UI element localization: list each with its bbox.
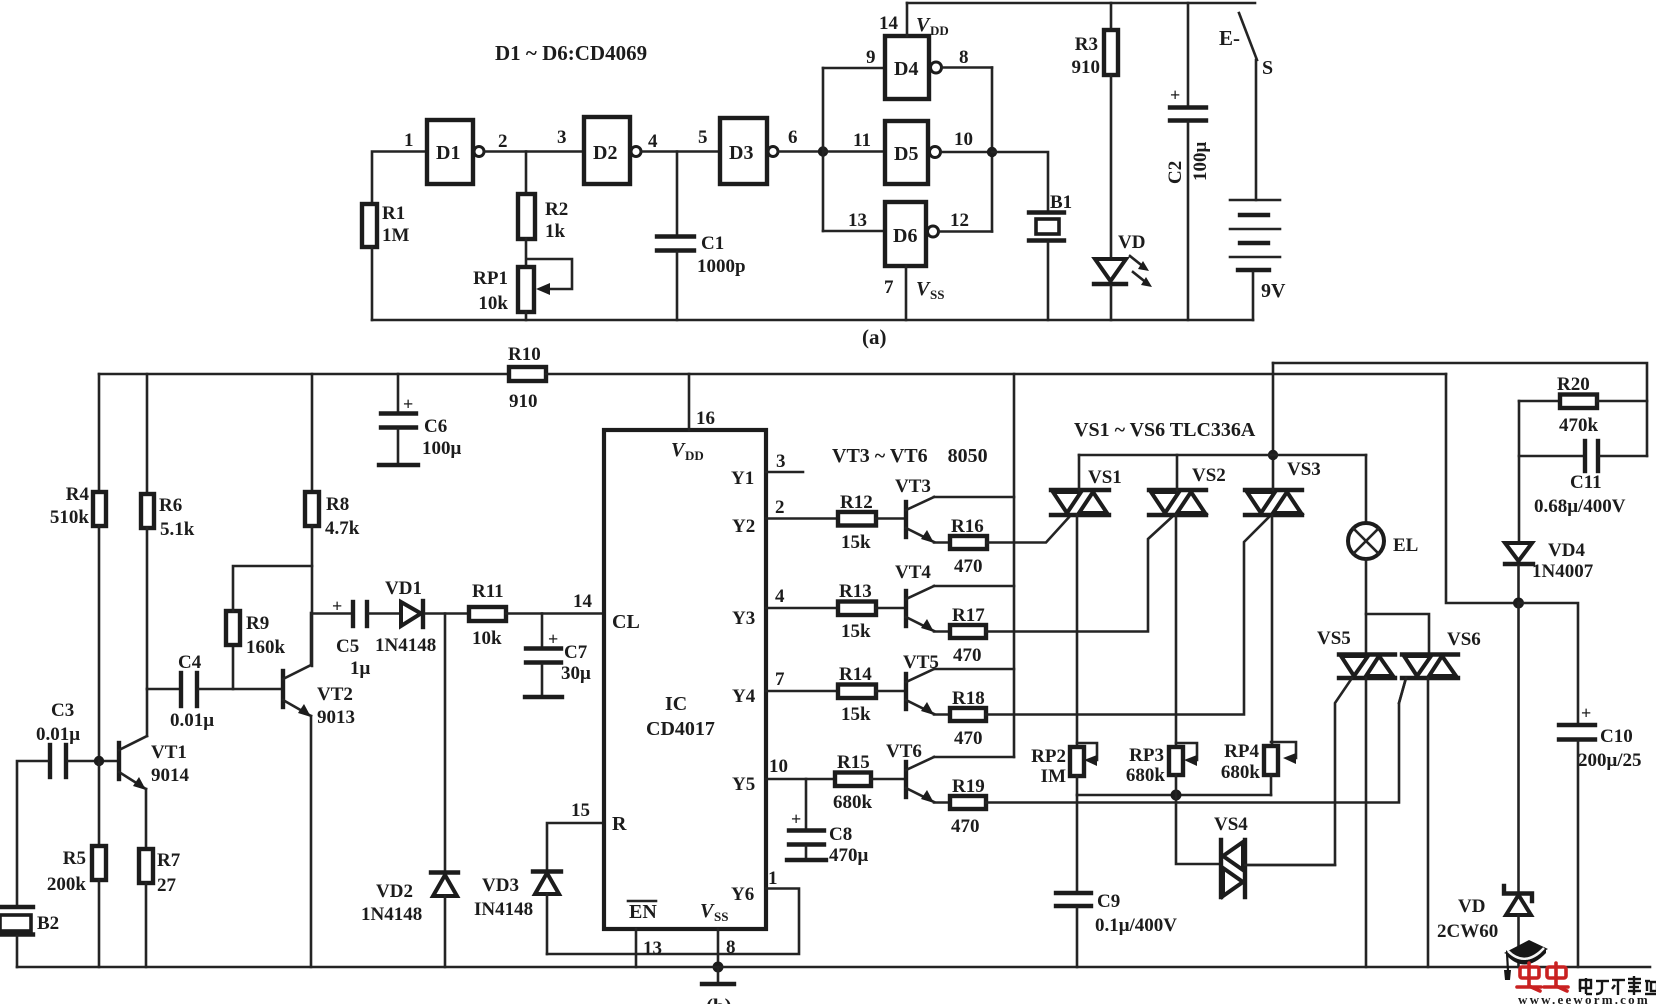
svg-text:15k: 15k	[841, 704, 871, 725]
wire switch to battery	[1255, 60, 1258, 200]
resistor R15	[835, 773, 871, 787]
triac VS1	[1051, 490, 1109, 515]
wire VT5 emitter to R18	[934, 713, 950, 716]
svg-text:D6: D6	[893, 225, 917, 247]
svg-text:200k: 200k	[47, 874, 87, 895]
svg-text:R11: R11	[472, 581, 504, 602]
wire VS4 gate feed	[1176, 795, 1219, 864]
svg-text:910: 910	[1072, 57, 1101, 78]
capacitor C2	[1170, 105, 1206, 109]
wire Y5 pin10	[766, 778, 835, 781]
triac VS4	[1221, 840, 1245, 897]
svg-text:510k: 510k	[50, 507, 90, 528]
wire C7 stub	[541, 614, 544, 648]
wire Y6 pin1 to VD3 line	[547, 889, 799, 955]
wire IC pin15 to VD3	[547, 823, 604, 870]
svg-text:R12: R12	[840, 492, 873, 513]
svg-text:9: 9	[866, 47, 876, 68]
wire VT2 emitter to rail	[310, 716, 313, 967]
potentiometer RP3	[1169, 747, 1183, 775]
bubble D6 output	[928, 226, 939, 237]
svg-text:680k: 680k	[1126, 765, 1166, 786]
svg-text:R15: R15	[837, 752, 870, 773]
wire VS5 gate	[1245, 678, 1352, 865]
svg-text:1: 1	[404, 130, 414, 151]
svg-text:680k: 680k	[1221, 762, 1261, 783]
wire C9 to bottom rail	[1076, 908, 1079, 967]
wire RP1 to bottom rail	[525, 312, 528, 320]
capacitor C8	[789, 828, 824, 832]
svg-text:VD: VD	[1458, 896, 1485, 917]
wire input to D1	[372, 152, 427, 205]
svg-text:0.01μ: 0.01μ	[170, 710, 214, 731]
svg-text:10: 10	[954, 129, 973, 150]
wire D6 output pin 12	[939, 230, 992, 233]
svg-text:30μ: 30μ	[561, 663, 591, 684]
svg-text:C7: C7	[564, 642, 588, 663]
potentiometer RP2	[1070, 747, 1084, 776]
svg-text:D4: D4	[894, 58, 918, 80]
svg-text:16: 16	[696, 408, 715, 429]
IC CD4017 box	[604, 430, 766, 929]
svg-text:3: 3	[557, 127, 567, 148]
svg-text:1000p: 1000p	[697, 256, 746, 277]
svg-text:9014: 9014	[151, 765, 190, 786]
inverter D3	[720, 118, 767, 184]
transistor VT3	[904, 502, 908, 537]
svg-text:R9: R9	[246, 613, 269, 634]
svg-text:VS3: VS3	[1287, 459, 1321, 480]
wire MT1 sub-rail	[1079, 454, 1366, 457]
svg-text:14: 14	[879, 13, 899, 34]
svg-text:VD: VD	[1118, 232, 1145, 253]
svg-text:470: 470	[954, 728, 983, 749]
resistor R7	[139, 849, 153, 883]
svg-text:R6: R6	[159, 495, 182, 516]
junction dot D3 out	[818, 146, 828, 156]
svg-text:1N4148: 1N4148	[361, 904, 422, 925]
transistor VT5	[904, 674, 908, 709]
svg-text:RP4: RP4	[1224, 741, 1259, 762]
svg-text:1M: 1M	[382, 225, 410, 246]
svg-text:C3: C3	[51, 700, 74, 721]
svg-text:(a): (a)	[862, 325, 887, 349]
svg-text:R5: R5	[63, 848, 86, 869]
svg-text:SS: SS	[930, 287, 944, 302]
svg-text:V: V	[700, 900, 715, 922]
svg-text:RP3: RP3	[1129, 745, 1164, 766]
svg-text:2CW60: 2CW60	[1437, 921, 1498, 942]
svg-text:VT4: VT4	[895, 562, 931, 583]
wire VS1 riser	[1078, 455, 1081, 490]
wire VS2 riser	[1176, 455, 1179, 490]
svg-text:R7: R7	[157, 850, 181, 871]
svg-text:C9: C9	[1097, 891, 1120, 912]
wire to D6 input pin 13	[823, 230, 885, 233]
svg-text:10k: 10k	[478, 293, 508, 314]
wire VS4 right to VS5 gate	[1245, 864, 1335, 867]
potentiometer RP1	[518, 267, 534, 312]
watermark site name glyphs	[1580, 976, 1656, 995]
wire VD2 column	[444, 614, 447, 872]
transistor VT2	[281, 671, 285, 707]
svg-text:IC: IC	[665, 693, 687, 715]
svg-text:VS4: VS4	[1214, 814, 1248, 835]
wire collector bus	[1013, 374, 1016, 757]
svg-text:EN: EN	[629, 901, 657, 923]
svg-text:C1: C1	[701, 233, 724, 254]
triac VS2	[1149, 490, 1206, 515]
svg-text:S: S	[1262, 57, 1273, 79]
svg-text:R14: R14	[839, 664, 872, 685]
inverter D6	[885, 202, 926, 266]
transistor VT1	[117, 743, 121, 779]
resistor R20	[1519, 400, 1560, 403]
svg-text:12: 12	[950, 210, 969, 231]
svg-text:Y2: Y2	[732, 516, 755, 537]
wire to D4 input pin 9	[823, 67, 885, 70]
junction dot outputs	[987, 147, 997, 157]
wire R5 to bottom rail	[98, 880, 101, 967]
wire VT1 emitter to R7	[145, 789, 148, 849]
wire top rail section b right of R10	[546, 373, 1446, 376]
wire VT1 collector riser	[146, 689, 149, 736]
svg-text:470k: 470k	[1559, 415, 1599, 436]
svg-text:Y6: Y6	[731, 884, 754, 905]
svg-text:VD4: VD4	[1548, 540, 1585, 561]
svg-text:D5: D5	[894, 143, 918, 165]
svg-text:VS1: VS1	[1088, 467, 1122, 488]
svg-text:+: +	[332, 596, 342, 616]
bubble D2 output	[631, 147, 641, 157]
watermark chongchong char1	[1517, 963, 1541, 991]
watermark chongchong char2	[1544, 963, 1568, 991]
wire pin16	[688, 374, 691, 430]
svg-text:470: 470	[951, 816, 980, 837]
svg-text:CL: CL	[612, 611, 640, 633]
wire R11 to IC pin14	[506, 612, 604, 615]
svg-text:R10: R10	[508, 344, 541, 365]
wire R13 to VT4	[876, 607, 904, 610]
svg-text:R20: R20	[1557, 374, 1590, 395]
wire R9 top feedback	[233, 566, 312, 611]
wire R3 to LED	[1110, 75, 1113, 258]
wire node to C10	[1519, 603, 1579, 723]
wire R4 to base node	[98, 526, 101, 761]
wire VD2 to bottom rail	[444, 896, 447, 967]
zener VD 2CW60	[1504, 886, 1532, 901]
resistor R12	[838, 512, 876, 526]
wire VT3 collector to bus	[934, 496, 1014, 499]
LED VD light arrows	[1130, 256, 1145, 268]
wire D3 to junction	[778, 150, 823, 153]
svg-text:VS6: VS6	[1447, 629, 1481, 650]
wire branch to VS6 top	[1366, 614, 1429, 654]
svg-text:VT3 ~ VT6 8050: VT3 ~ VT6 8050	[832, 445, 988, 467]
wire R8 column top	[311, 374, 314, 492]
wire riser to D4/D6 inputs	[822, 68, 825, 231]
wire node to C1	[676, 152, 679, 235]
svg-text:100μ: 100μ	[422, 438, 462, 459]
wire RP2 bottom	[1076, 776, 1079, 795]
svg-text:3: 3	[776, 451, 786, 472]
wire node2 to R2	[525, 152, 528, 195]
svg-text:R: R	[612, 813, 627, 835]
triac VS6	[1402, 655, 1458, 679]
svg-text:14: 14	[573, 591, 593, 612]
bubble D1 output	[474, 147, 484, 157]
svg-text:2: 2	[775, 497, 785, 518]
svg-text:15k: 15k	[841, 532, 871, 553]
wire C3 left to B2	[17, 761, 48, 906]
wire C10 to bottom rail	[1577, 741, 1580, 967]
wire D2 to D3	[641, 150, 720, 153]
wire D1 to D2	[484, 150, 584, 153]
wire VT4 collector to bus	[934, 585, 1014, 588]
wire VS5 MT2 drop	[1365, 678, 1368, 967]
resistor R5	[92, 846, 106, 880]
resistor R16	[950, 536, 987, 549]
svg-text:4: 4	[775, 586, 785, 607]
wire C1 to bottom rail	[676, 252, 679, 320]
LED VD	[1095, 259, 1126, 281]
svg-text:B1: B1	[1050, 192, 1072, 213]
svg-text:C10: C10	[1600, 726, 1633, 747]
wire C9 column	[1076, 795, 1079, 891]
wire C6 stub	[397, 374, 400, 412]
wire R3 top	[1110, 3, 1113, 30]
wire VD4 to node dot	[1517, 566, 1520, 603]
potentiometer RP4	[1264, 746, 1278, 775]
wire C5 to VD1	[369, 612, 400, 615]
svg-text:IM: IM	[1041, 766, 1066, 787]
svg-text:D1: D1	[436, 142, 460, 164]
svg-text:13: 13	[848, 210, 867, 231]
wire VT4 emitter to R17	[934, 630, 950, 633]
capacitor C10	[1559, 723, 1595, 727]
svg-text:R1: R1	[382, 203, 405, 224]
svg-text:+: +	[403, 394, 413, 414]
wire C2 top	[1187, 3, 1190, 106]
svg-text:VT3: VT3	[895, 476, 931, 497]
wire VS3 MT2 drop	[1271, 515, 1274, 746]
svg-text:C6: C6	[424, 416, 447, 437]
svg-text:VT6: VT6	[886, 741, 922, 762]
wire junction to B1	[992, 152, 1048, 211]
wire C4 to VT2 base	[199, 688, 281, 691]
svg-text:+: +	[791, 809, 801, 829]
capacitor C7	[526, 646, 561, 650]
svg-text:4.7k: 4.7k	[325, 518, 360, 539]
svg-text:5: 5	[698, 127, 708, 148]
transistor VT4	[904, 591, 908, 626]
wire Y3 pin4	[766, 607, 838, 610]
svg-text:R8: R8	[326, 494, 349, 515]
wire R19 to VS6 gate	[986, 678, 1406, 803]
wire RP4 bottom	[1270, 775, 1273, 795]
svg-text:(b): (b)	[706, 994, 732, 1004]
diode VD3	[533, 869, 561, 873]
svg-text:9V: 9V	[1261, 280, 1286, 302]
inverter D4	[885, 36, 929, 99]
capacitor C4	[179, 673, 183, 706]
wire R8 to VT2 collector	[311, 526, 314, 666]
svg-text:5.1k: 5.1k	[160, 519, 195, 540]
svg-text:CD4017: CD4017	[646, 718, 715, 740]
svg-text:R2: R2	[545, 199, 568, 220]
wire C3 right to base	[68, 760, 117, 763]
wire bottom rail section a	[372, 319, 1253, 322]
svg-text:470: 470	[953, 645, 982, 666]
wire upper AC rail	[1273, 363, 1647, 456]
capacitor C1	[657, 234, 694, 238]
svg-text:VT2: VT2	[317, 684, 353, 705]
wire R16 to VS1 gate	[987, 515, 1071, 543]
svg-text:C11: C11	[1570, 472, 1602, 493]
wire VS2 MT2 drop	[1175, 515, 1178, 747]
triac VS5	[1339, 655, 1395, 679]
wire D5 output pin 10	[941, 151, 992, 154]
svg-text:www.eeworm.com: www.eeworm.com	[1518, 992, 1650, 1004]
lamp EL	[1365, 455, 1368, 523]
svg-text:C4: C4	[178, 652, 202, 673]
svg-text:2: 2	[498, 131, 508, 152]
ground symbol	[717, 967, 720, 983]
capacitor C6	[381, 411, 416, 415]
wire R12 to VT3	[876, 517, 904, 520]
wire pot bottom link	[1077, 794, 1271, 797]
junction dot pot link	[1171, 790, 1182, 801]
wire main rail drop to VD4 node	[1446, 374, 1513, 603]
svg-text:9013: 9013	[317, 707, 355, 728]
inverter D2	[584, 117, 630, 184]
svg-text:8: 8	[726, 937, 736, 958]
wire C8 stub	[805, 779, 808, 829]
RP1 wiper arm	[527, 259, 572, 289]
inverter D1	[427, 120, 473, 184]
svg-text:27: 27	[157, 875, 177, 896]
junction dot VD4 node	[1513, 598, 1524, 609]
svg-text:R3: R3	[1075, 34, 1098, 55]
svg-text:10: 10	[769, 756, 788, 777]
svg-text:0.68μ/400V: 0.68μ/400V	[1534, 496, 1626, 517]
svg-text:7: 7	[884, 277, 894, 298]
svg-text:13: 13	[643, 938, 662, 959]
resistor R18	[950, 708, 986, 721]
inverter D5	[885, 121, 928, 184]
svg-text:C8: C8	[829, 824, 852, 845]
resistor R8	[305, 492, 319, 526]
wire R9 bottom	[232, 645, 235, 689]
wire collector to C5	[312, 612, 351, 615]
junction dot VT1 base	[94, 756, 104, 766]
svg-text:VD2: VD2	[376, 881, 413, 902]
wire R15 to VT6	[871, 778, 904, 781]
svg-text:C5: C5	[336, 636, 359, 657]
svg-text:C2: C2	[1165, 161, 1186, 184]
watermark graduation cap	[1504, 940, 1548, 961]
svg-text:15: 15	[571, 800, 590, 821]
wire VT2 collector riser	[310, 613, 313, 665]
diode VD4	[1505, 543, 1532, 561]
wire top rail section a	[907, 2, 1255, 5]
svg-text:+: +	[548, 629, 558, 649]
wire pin13 EN	[635, 929, 638, 967]
svg-text:680k: 680k	[833, 792, 873, 813]
svg-text:8: 8	[959, 47, 969, 68]
wire R7 to bottom rail	[145, 883, 148, 967]
svg-text:RP1: RP1	[473, 268, 508, 289]
wire R2 to RP1	[525, 239, 528, 267]
svg-text:1μ: 1μ	[350, 658, 371, 679]
wire VSS drop	[905, 266, 908, 320]
wire bottom rail section b	[17, 966, 1650, 969]
svg-text:B2: B2	[37, 913, 59, 934]
wire VT6 collector to bus	[934, 756, 1014, 759]
wire VS6 MT2 drop	[1427, 678, 1430, 967]
wire Y1 stub pin3	[766, 471, 803, 474]
svg-text:E-: E-	[1219, 26, 1240, 50]
wire output riser	[991, 68, 994, 232]
svg-text:VT1: VT1	[151, 742, 187, 763]
svg-text:V: V	[916, 278, 931, 300]
triac VS3	[1245, 490, 1302, 515]
svg-text:0.1μ/400V: 0.1μ/400V	[1095, 915, 1177, 936]
wire VT3 emitter to R16	[934, 541, 950, 544]
microphone B2	[0, 905, 33, 909]
svg-text:+: +	[1170, 85, 1180, 105]
capacitor C9	[1056, 891, 1091, 895]
wire top rail section b left	[99, 373, 509, 376]
wire VS1 MT2 drop	[1076, 515, 1079, 747]
capacitor C11	[1519, 455, 1583, 458]
capacitor C3	[48, 745, 52, 777]
wire battery to bottom rail	[1252, 272, 1255, 320]
bubble D4 output	[931, 62, 942, 73]
svg-text:R17: R17	[952, 605, 985, 626]
svg-text:R19: R19	[952, 776, 985, 797]
junction dot pin8 ground	[713, 962, 724, 973]
wire C2 to bottom rail	[1187, 122, 1190, 320]
svg-text:6: 6	[788, 127, 798, 148]
svg-text:VD1: VD1	[385, 578, 422, 599]
svg-text:0.01μ: 0.01μ	[36, 724, 80, 745]
svg-text:1N4007: 1N4007	[1532, 561, 1594, 582]
diode VD1	[401, 602, 421, 626]
wire zener column	[1517, 603, 1520, 892]
wire R4 column top	[98, 374, 101, 492]
wire VD1 to R11	[425, 612, 469, 615]
svg-text:11: 11	[853, 130, 871, 151]
resistor R17	[950, 625, 986, 638]
buzzer B1	[1029, 210, 1064, 214]
svg-text:R13: R13	[839, 581, 872, 602]
wire Y4 pin7	[766, 690, 838, 693]
svg-text:1N4148: 1N4148	[375, 635, 436, 656]
wire RP3 bottom	[1175, 775, 1178, 795]
wire D4 output pin 8	[942, 66, 992, 69]
svg-text:15k: 15k	[841, 621, 871, 642]
svg-text:V: V	[916, 14, 931, 36]
svg-text:10k: 10k	[472, 628, 502, 649]
svg-text:V: V	[671, 439, 686, 461]
svg-text:4: 4	[648, 131, 658, 152]
wire zener to bottom rail	[1517, 915, 1520, 967]
svg-text:470: 470	[954, 556, 983, 577]
svg-text:100μ: 100μ	[1190, 142, 1211, 182]
svg-text:D3: D3	[729, 142, 753, 164]
wire VS6 gate diagonal	[1399, 678, 1406, 703]
